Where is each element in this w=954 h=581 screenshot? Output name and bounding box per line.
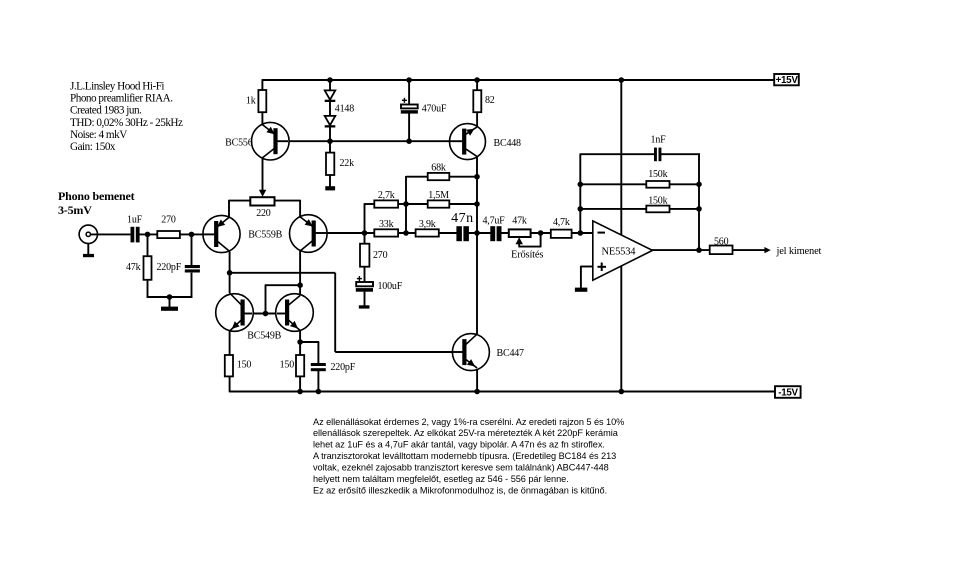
wire connector to C 1uF: [91, 233, 131, 235]
connector J1 phono input: [79, 225, 97, 243]
resistor 68k: [428, 173, 450, 180]
ground input RC: [161, 307, 178, 311]
wire node vertical 68k: [406, 176, 428, 233]
label 150k: [648, 169, 667, 180]
svg-text:BC447: BC447: [497, 348, 525, 359]
label jel kimenet: [776, 246, 822, 257]
svg-text:Noise: 4 mkV: Noise: 4 mkV: [70, 129, 127, 141]
label title line 3: [70, 105, 142, 117]
resistor 150k upper: [646, 181, 669, 188]
label 560: [714, 236, 729, 247]
svg-text:Phono preamlifier RIAA.: Phono preamlifier RIAA.: [70, 93, 173, 105]
svg-text:150: 150: [237, 360, 252, 371]
label 100uF: [378, 281, 403, 292]
ground op-amp +in: [575, 288, 587, 292]
wire BC549B base link: [244, 313, 285, 315]
svg-text:1k: 1k: [246, 96, 256, 107]
wire fb left vertical: [579, 154, 581, 233]
label Phono bemenet: [58, 189, 135, 203]
label 47n: [451, 211, 474, 226]
wire 1,5M right: [449, 203, 478, 205]
wire node to R 270: [364, 233, 366, 244]
wire BC559B-1 collector down: [229, 251, 231, 293]
ground 100uF: [359, 305, 370, 308]
wire signal row c: [501, 232, 593, 234]
svg-text:82: 82: [485, 95, 495, 106]
transistor Q6 BC448: [450, 124, 486, 160]
svg-text:47k: 47k: [512, 215, 527, 226]
resistor 47k input: [144, 256, 152, 280]
wire output to arrow: [732, 249, 766, 251]
wire op-amp +in: [581, 266, 594, 288]
wire pot 220 left lead: [229, 200, 251, 218]
wire C 1uF to BC559B base: [138, 233, 214, 235]
label 1uF: [127, 214, 143, 225]
svg-text:BC556: BC556: [225, 138, 253, 149]
resistor 150 left: [225, 355, 233, 376]
label note line 7: [313, 485, 607, 495]
label 150: [237, 360, 252, 371]
wire BC549B-2 emitter to R150: [299, 331, 301, 356]
output arrow: [764, 247, 770, 253]
label 22k: [340, 158, 355, 169]
label 1,5M: [428, 190, 449, 201]
wire op-amp supply vertical: [620, 80, 622, 392]
wire D1 to D2: [329, 101, 331, 116]
wire R 270 to C 100uF: [364, 266, 366, 282]
op-amp U1 NE5534: [593, 221, 653, 280]
svg-text:100uF: 100uF: [378, 281, 403, 292]
svg-text:47k: 47k: [126, 262, 141, 273]
svg-text:470uF: 470uF: [422, 104, 447, 115]
wire fb top row b: [661, 153, 700, 155]
label note line 2: [313, 428, 619, 438]
capacitor 4,7uF: [490, 226, 501, 241]
svg-text:47n: 47n: [451, 211, 474, 226]
capacitor 220pF input: [185, 265, 200, 273]
label 4,7k: [553, 217, 570, 228]
wire node to C 220pF bottom: [300, 342, 319, 364]
label 270: [373, 250, 388, 261]
wire 150k row 2: [580, 208, 699, 210]
wire 150k row 1: [580, 183, 699, 185]
label 220pF: [157, 262, 182, 273]
resistor 2,7k: [374, 200, 398, 207]
label 220: [256, 208, 271, 219]
svg-text:150k: 150k: [648, 195, 667, 206]
wire base row node: [277, 140, 462, 142]
transistor Q4 BC549B: [216, 293, 254, 331]
svg-text:-15V: -15V: [778, 388, 798, 399]
svg-text:Created 1983 jun.: Created 1983 jun.: [70, 105, 142, 117]
label BC448: [494, 138, 522, 149]
svg-text:68k: 68k: [431, 162, 446, 173]
svg-text:150k: 150k: [648, 169, 667, 180]
wire BC556 collector to pot wiper: [262, 158, 264, 191]
svg-text:3,9k: 3,9k: [419, 219, 436, 230]
wire 2,7k to node: [398, 203, 407, 205]
label 470uF: [422, 104, 447, 115]
wire pot 220 right lead: [274, 200, 300, 217]
label title line 1: [70, 81, 164, 93]
label 220pF: [331, 362, 356, 373]
svg-text:NE5534: NE5534: [602, 246, 637, 257]
wire signal row b: [468, 232, 491, 234]
svg-text:4,7k: 4,7k: [553, 217, 570, 228]
svg-text:BC559B: BC559B: [248, 229, 282, 240]
label note line 3: [313, 440, 605, 450]
label 4148: [335, 104, 354, 115]
svg-text:22k: 22k: [340, 158, 355, 169]
svg-text:33k: 33k: [379, 219, 394, 230]
label title line 6: [70, 141, 116, 153]
label BC559B: [248, 229, 282, 240]
svg-text:BC549B: BC549B: [247, 331, 281, 342]
transistor Q5 BC549B: [276, 294, 314, 332]
svg-text:1nF: 1nF: [651, 134, 667, 145]
resistor 560: [710, 246, 733, 255]
label +15V: [776, 75, 799, 86]
label 150k: [648, 195, 667, 206]
wire 1,5M left: [406, 203, 428, 205]
resistor 22k: [326, 153, 334, 175]
svg-text:1uF: 1uF: [127, 214, 143, 225]
wire 68k right: [449, 176, 478, 178]
svg-text:220pF: 220pF: [157, 262, 182, 273]
label note line 1: [313, 417, 624, 427]
resistor 1k: [258, 90, 266, 112]
svg-text:3-5mV: 3-5mV: [58, 203, 92, 217]
svg-text:jel kimenet: jel kimenet: [776, 246, 822, 257]
wire RC bottom link: [147, 296, 193, 298]
label title line 2: [70, 93, 173, 105]
wire base link up: [265, 285, 300, 313]
label -15V: [778, 388, 798, 399]
wire BC549B-1 emitter to R150: [229, 331, 231, 356]
svg-text:1,5M: 1,5M: [428, 190, 449, 201]
wire R 22k to ground: [329, 175, 331, 187]
wire rail to D1: [329, 79, 331, 90]
wire rail to R 82: [476, 79, 478, 91]
svg-text:Ez az erősítő illeszkedik a Mi: Ez az erősítő illeszkedik a Mikrofonmodu…: [313, 485, 607, 495]
capacitor 470uF electrolytic: [401, 98, 418, 114]
wire R150 left to rail: [229, 376, 231, 393]
resistor 150 right: [296, 355, 304, 376]
label note line 6: [313, 474, 569, 484]
svg-text:150: 150: [280, 360, 295, 371]
wire C 220pF to rail: [317, 371, 319, 392]
ground input connector: [83, 254, 94, 257]
capacitor 1uF: [131, 227, 140, 243]
wire node to C 220pF: [191, 234, 193, 265]
svg-text:J.L.Linsley Hood Hi-Fi: J.L.Linsley Hood Hi-Fi: [70, 81, 164, 93]
wire R 1k to Q BC556 emitter: [261, 112, 263, 125]
wire fb down: [334, 273, 336, 352]
label note line 5: [313, 463, 609, 473]
wire fb right vertical: [698, 153, 700, 250]
label 68k: [431, 162, 446, 173]
wire connector ground stem: [87, 244, 89, 256]
resistor 270 input: [157, 231, 180, 238]
resistor 150k lower: [646, 206, 669, 213]
label title line 4: [70, 117, 183, 129]
resistor 3,9k: [416, 229, 439, 236]
resistor 1,5M: [428, 200, 450, 207]
transistor Q3 BC559B: [290, 215, 328, 253]
label 4,7uF: [482, 215, 505, 226]
svg-text:BC448: BC448: [494, 138, 522, 149]
label note line 4: [313, 451, 616, 461]
svg-text:lehet az 1uF és a 4,7uF akár t: lehet az 1uF és a 4,7uF akár tantál, vag…: [313, 440, 605, 450]
potentiometer 220: [250, 197, 274, 205]
svg-text:270: 270: [373, 250, 388, 261]
label 47k: [512, 215, 527, 226]
label NE5534: [602, 246, 637, 257]
resistor 270 emitter: [360, 244, 369, 267]
wire 2,7k branch: [365, 203, 375, 233]
wire node to R 47k: [147, 234, 149, 256]
capacitor 100uF electrolytic: [356, 276, 373, 292]
wire D2 to base node: [329, 126, 331, 142]
pot 220 wiper arrow: [259, 190, 266, 197]
transistor Q1 BC556: [251, 122, 289, 160]
label BC447: [497, 348, 525, 359]
wire R 47k to bottom link: [147, 280, 149, 298]
svg-text:Phono bemenet: Phono bemenet: [58, 189, 135, 203]
wire pot 47k wiper: [518, 233, 540, 247]
wire rail to C 470uF: [408, 79, 410, 105]
diode D1 4148: [325, 90, 336, 102]
label 2,7k: [378, 190, 395, 201]
wire RC ground stem: [169, 297, 171, 308]
wire fb to BC447 base: [335, 351, 463, 353]
wire R150 right to rail: [299, 376, 301, 392]
wire fb top row a: [580, 153, 655, 155]
capacitor 47n: [456, 226, 469, 241]
svg-text:helyett nem találtam megfelelő: helyett nem találtam megfelelőt, esetleg…: [313, 474, 569, 484]
label 47k: [126, 262, 141, 273]
wire bottom -15V rail: [230, 391, 775, 393]
label Erosites: [511, 249, 543, 260]
svg-text:THD: 0,02% 30Hz - 25kHz: THD: 0,02% 30Hz - 25kHz: [70, 117, 183, 129]
wire node to R 22k: [329, 141, 331, 153]
label 3,9k: [419, 219, 436, 230]
label 270: [161, 214, 176, 225]
label 1nF: [651, 134, 667, 145]
svg-text:2,7k: 2,7k: [378, 190, 395, 201]
capacitor 1nF: [654, 148, 661, 162]
ground 22k: [325, 186, 335, 190]
svg-text:220pF: 220pF: [331, 362, 356, 373]
svg-text:Erősítés: Erősítés: [511, 249, 543, 260]
resistor 4,7k: [551, 230, 572, 238]
pot 47k wiper arrow: [516, 237, 523, 244]
wire C 470uF to base node: [408, 112, 410, 142]
wire BC448 collector vertical: [476, 156, 478, 334]
label title line 5: [70, 129, 127, 141]
resistor 33k: [374, 229, 398, 236]
wire BC447 emitter to rail: [476, 368, 478, 392]
wire C 220pF to bottom link: [191, 273, 193, 298]
label BC556: [225, 138, 253, 149]
label 1k: [246, 96, 256, 107]
label 3-5mV: [58, 203, 92, 217]
wire BC559B-2 collector down: [299, 251, 301, 296]
wire C 100uF to ground: [364, 291, 366, 306]
label 150: [280, 360, 295, 371]
wire top +15V rail: [262, 79, 774, 81]
svg-text:+15V: +15V: [776, 75, 799, 86]
label 82: [485, 95, 495, 106]
+15V supply box: [774, 74, 799, 85]
transistor Q7 BC447: [452, 334, 489, 371]
svg-text:ellenállások szerepeltek. Az e: ellenállások szerepeltek. Az elkókat 25V…: [313, 428, 619, 438]
wire R 82 to BC448: [476, 112, 478, 127]
wire signal row a: [316, 232, 458, 234]
label 33k: [379, 219, 394, 230]
svg-text:560: 560: [714, 236, 729, 247]
svg-text:Az ellenállásokat érdemes 2, v: Az ellenállásokat érdemes 2, vagy 1%-ra …: [313, 417, 624, 427]
svg-text:4,7uF: 4,7uF: [482, 215, 505, 226]
diode D2 4148: [325, 116, 336, 128]
wire rail to R 1k: [261, 79, 263, 90]
capacitor 220pF bottom: [311, 363, 326, 371]
svg-text:220: 220: [256, 208, 271, 219]
wire op-amp output: [651, 249, 711, 251]
potentiometer 47k gain: [509, 229, 531, 237]
svg-text:4148: 4148: [335, 104, 354, 115]
resistor 82: [473, 90, 481, 112]
svg-text:270: 270: [161, 214, 176, 225]
svg-text:voltak, ezeknél zajosabb tranz: voltak, ezeknél zajosabb tranzisztort ke…: [313, 463, 609, 473]
transistor Q2 BC559B: [203, 215, 240, 252]
svg-text:Gain: 150x: Gain: 150x: [70, 141, 116, 153]
svg-text:A tranzisztorokat leválltottam: A tranzisztorokat leválltottam modernebb…: [313, 451, 616, 461]
-15V supply box: [775, 386, 801, 398]
label BC549B: [247, 331, 281, 342]
wire fb node across: [230, 272, 336, 274]
